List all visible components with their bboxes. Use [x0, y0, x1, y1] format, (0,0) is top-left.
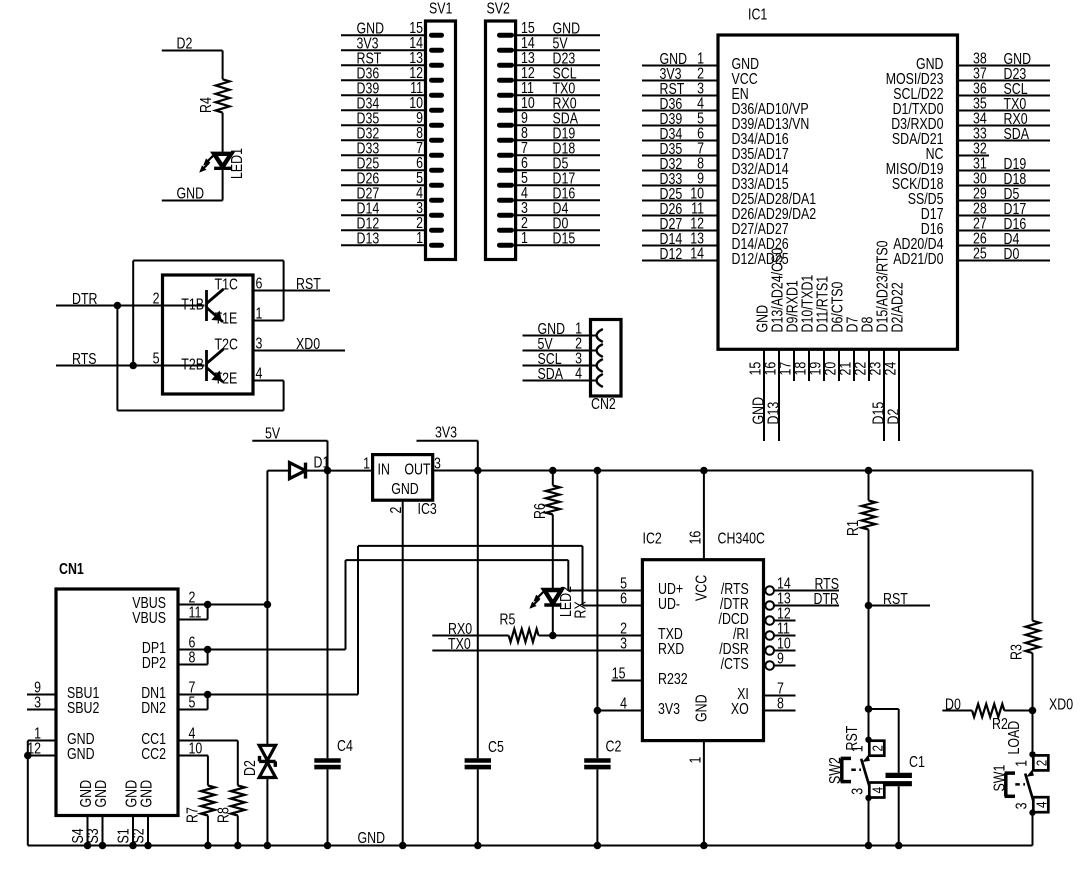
svg-text:D12: D12 [660, 245, 683, 263]
svg-text:6: 6 [620, 589, 627, 607]
svg-text:T2C: T2C [215, 335, 238, 353]
svg-text:VCC: VCC [692, 575, 710, 601]
svg-text:R4: R4 [197, 97, 215, 113]
svg-text:16: 16 [686, 531, 704, 545]
svg-text:GND: GND [177, 184, 205, 202]
svg-text:XO: XO [731, 700, 749, 718]
svg-text:10: 10 [189, 739, 203, 757]
svg-text:C1: C1 [909, 753, 925, 771]
svg-text:4: 4 [1033, 802, 1050, 808]
svg-text:IN: IN [378, 460, 390, 478]
svg-text:GND: GND [137, 780, 155, 808]
svg-text:1: 1 [256, 304, 263, 322]
svg-text:3: 3 [848, 788, 866, 795]
svg-text:RST: RST [843, 725, 861, 750]
svg-text:LED1: LED1 [228, 148, 246, 179]
svg-text:T2E: T2E [215, 369, 238, 387]
svg-text:RXD: RXD [658, 640, 684, 658]
svg-text:4: 4 [620, 694, 627, 712]
svg-text:C2: C2 [606, 737, 622, 755]
svg-text:GND: GND [358, 829, 386, 847]
svg-text:RST: RST [296, 275, 321, 293]
svg-text:D13: D13 [764, 402, 782, 425]
svg-text:DTR: DTR [814, 590, 839, 608]
svg-text:AD21/D0: AD21/D0 [893, 250, 943, 268]
svg-text:SV1: SV1 [429, 0, 453, 17]
svg-text:SW2: SW2 [826, 757, 844, 784]
svg-text:IC3: IC3 [418, 500, 437, 518]
svg-text:D2: D2 [884, 408, 902, 424]
svg-text:RTS: RTS [72, 350, 97, 368]
svg-text:SDA: SDA [538, 365, 564, 383]
svg-text:2: 2 [386, 506, 404, 513]
svg-text:4: 4 [256, 364, 263, 382]
svg-text:1: 1 [521, 229, 528, 247]
svg-text:3: 3 [434, 454, 441, 472]
svg-text:2: 2 [153, 289, 160, 307]
svg-text:R5: R5 [500, 610, 516, 628]
svg-text:15: 15 [612, 664, 626, 682]
svg-text:T2B: T2B [181, 355, 204, 373]
svg-text:S3: S3 [84, 828, 102, 843]
svg-text:14: 14 [690, 244, 704, 262]
svg-text:2: 2 [869, 745, 886, 751]
svg-text:9: 9 [777, 649, 784, 667]
svg-text:5: 5 [153, 349, 160, 367]
svg-text:GND: GND [391, 480, 419, 498]
svg-text:T1E: T1E [215, 309, 238, 327]
svg-text:SV2: SV2 [487, 0, 511, 17]
svg-text:SBU2: SBU2 [67, 699, 100, 717]
svg-text:/CTS: /CTS [721, 655, 749, 673]
svg-text:DP2: DP2 [142, 654, 166, 672]
svg-text:3V3: 3V3 [435, 423, 457, 441]
svg-text:R3: R3 [1007, 644, 1025, 660]
svg-text:T1B: T1B [181, 295, 204, 313]
svg-text:D0: D0 [1004, 245, 1020, 263]
svg-text:24: 24 [881, 362, 899, 376]
svg-text:XD0: XD0 [1049, 695, 1073, 713]
svg-text:R232: R232 [658, 670, 688, 688]
svg-text:RST: RST [883, 590, 908, 608]
svg-text:5V: 5V [265, 424, 281, 442]
svg-text:D13: D13 [357, 229, 380, 247]
svg-text:1: 1 [416, 229, 423, 247]
svg-text:8: 8 [189, 648, 196, 666]
svg-text:UD-: UD- [658, 595, 680, 613]
svg-text:SDA: SDA [1004, 125, 1030, 143]
svg-text:GND: GND [67, 745, 95, 763]
svg-text:RX: RX [571, 601, 589, 619]
svg-text:25: 25 [973, 244, 987, 262]
svg-text:R6: R6 [531, 503, 549, 519]
svg-text:1: 1 [363, 454, 370, 472]
svg-text:CH340C: CH340C [718, 529, 765, 547]
svg-text:R7: R7 [183, 807, 201, 823]
svg-text:R1: R1 [844, 520, 862, 536]
svg-text:XD0: XD0 [296, 335, 320, 353]
svg-text:LOAD: LOAD [1005, 721, 1023, 755]
svg-text:11: 11 [189, 603, 202, 621]
svg-text:CC2: CC2 [141, 745, 166, 763]
svg-text:TX0: TX0 [448, 634, 471, 652]
svg-text:S2: S2 [129, 828, 147, 843]
svg-text:D1: D1 [314, 453, 330, 471]
svg-text:3: 3 [34, 693, 41, 711]
svg-text:1: 1 [1012, 760, 1030, 767]
svg-text:D15: D15 [553, 229, 576, 247]
svg-text:DTR: DTR [72, 290, 97, 308]
svg-text:D2/AD22: D2/AD22 [888, 282, 906, 332]
svg-text:3V3: 3V3 [658, 700, 680, 718]
svg-text:OUT: OUT [404, 460, 431, 478]
svg-text:VBUS: VBUS [132, 609, 166, 627]
svg-text:D2: D2 [241, 760, 259, 776]
svg-text:2: 2 [1033, 760, 1050, 766]
svg-text:R8: R8 [214, 807, 232, 823]
svg-text:CN2: CN2 [591, 395, 616, 413]
svg-text:IC1: IC1 [748, 5, 767, 23]
svg-text:C4: C4 [337, 737, 353, 755]
svg-text:3: 3 [256, 334, 263, 352]
svg-text:3: 3 [620, 634, 627, 652]
svg-text:4: 4 [575, 364, 582, 382]
svg-text:1: 1 [686, 756, 704, 763]
svg-text:DN2: DN2 [141, 699, 166, 717]
svg-text:GND: GND [92, 780, 110, 808]
svg-text:IC2: IC2 [643, 529, 662, 547]
svg-text:T1C: T1C [215, 275, 238, 293]
svg-text:6: 6 [256, 274, 263, 292]
svg-text:GND: GND [692, 694, 710, 722]
svg-text:CN1: CN1 [59, 560, 84, 578]
svg-text:D2: D2 [177, 34, 193, 52]
svg-text:4: 4 [869, 787, 886, 793]
svg-text:SW1: SW1 [990, 764, 1008, 791]
svg-text:12: 12 [27, 739, 41, 757]
svg-text:8: 8 [777, 694, 784, 712]
svg-text:5: 5 [189, 693, 196, 711]
svg-text:3: 3 [1012, 802, 1030, 809]
svg-text:C5: C5 [488, 738, 504, 756]
